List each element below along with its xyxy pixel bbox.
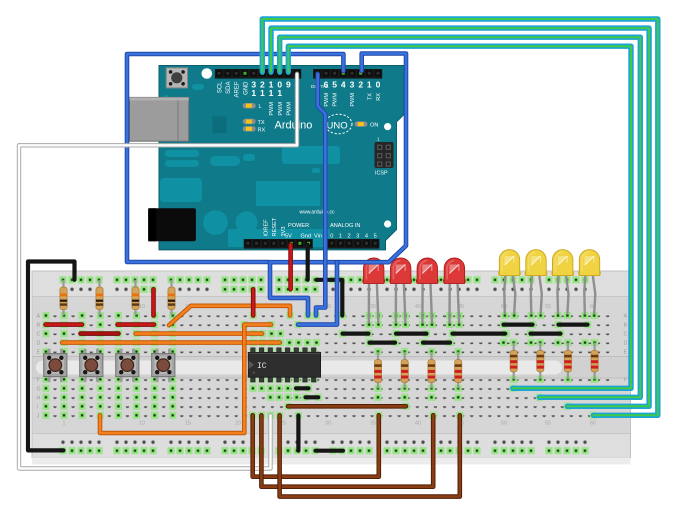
svg-text:3: 3 — [350, 80, 355, 90]
svg-text:D: D — [624, 341, 628, 347]
svg-text:3: 3 — [356, 234, 359, 240]
resistor R10 220 — [537, 343, 544, 380]
svg-text:IOREF: IOREF — [263, 219, 269, 237]
wire black row-D jumper 2 — [423, 341, 450, 345]
wire brown loop 2 — [261, 415, 433, 486]
wire black row-C jumper 1 — [343, 332, 369, 336]
power jack — [148, 208, 196, 241]
LED D8 yellow — [578, 250, 601, 314]
resistor R12 220 — [591, 343, 598, 380]
svg-text:A: A — [624, 314, 628, 320]
svg-text:35: 35 — [370, 304, 376, 310]
svg-text:PWM: PWM — [324, 93, 330, 107]
svg-text:RX: RX — [258, 127, 266, 133]
wire orange loop to row J — [100, 325, 271, 433]
svg-text:H: H — [37, 395, 41, 401]
wire black row J to bottom rail — [296, 415, 300, 450]
svg-text:AREF: AREF — [235, 81, 241, 97]
wire blue to row B — [298, 262, 337, 324]
wire red rail to row A (col 23) — [251, 289, 256, 315]
svg-text:40: 40 — [415, 421, 421, 427]
svg-text:10: 10 — [139, 421, 145, 427]
svg-text:1: 1 — [339, 234, 342, 240]
svg-text:C: C — [624, 332, 628, 338]
wire green pin12 to row J col60 — [262, 19, 658, 415]
wire white pin8 big loop to row J — [19, 74, 297, 469]
svg-text:Arduino: Arduino — [275, 120, 313, 132]
svg-text:www.arduino.cc: www.arduino.cc — [299, 210, 335, 216]
reset button — [166, 68, 187, 88]
resistor R2 10k — [96, 280, 103, 316]
wire blue pin4 loop (left rectangle) — [127, 54, 343, 262]
wire red row-B jumper 2 — [118, 322, 155, 327]
wire red rail to row A (col 12) — [151, 289, 156, 315]
wire black row-C jumper 2 — [396, 332, 427, 336]
svg-text:1: 1 — [269, 88, 274, 98]
analog header — [328, 239, 380, 249]
wire orange row-A jumper — [169, 306, 290, 325]
svg-text:D: D — [37, 341, 41, 347]
resistor R1 10k — [60, 280, 67, 316]
svg-text:20: 20 — [235, 421, 241, 427]
resistor R6 220 — [401, 352, 408, 389]
pushbutton S1 — [44, 349, 67, 382]
svg-text:4: 4 — [341, 80, 346, 90]
wire black rail-to-rail left loop — [28, 262, 75, 451]
svg-text:UNO: UNO — [327, 121, 348, 132]
LED D5 yellow — [498, 250, 521, 314]
svg-text:60: 60 — [590, 421, 596, 427]
svg-text:PWM: PWM — [333, 93, 339, 107]
power rail holes — [58, 284, 593, 294]
power header — [244, 239, 313, 249]
wire green pin9 to row G col51 — [288, 46, 631, 388]
USB connector — [130, 97, 189, 141]
wire black row-G jumper — [296, 386, 309, 390]
svg-text:15: 15 — [185, 421, 191, 427]
wire black row-H jumper — [306, 395, 319, 399]
main grid holes rows A-E — [41, 311, 613, 356]
L TX RX ON leds — [243, 103, 256, 108]
top-left header — [215, 69, 301, 79]
wire black bottom rail jumper — [316, 449, 344, 453]
svg-text:G: G — [37, 386, 41, 392]
svg-text:40: 40 — [415, 304, 421, 310]
svg-text:55: 55 — [545, 304, 551, 310]
pushbutton S2 — [80, 349, 103, 382]
svg-text:I: I — [37, 404, 39, 410]
svg-text:10: 10 — [139, 304, 145, 310]
svg-text:1: 1 — [251, 88, 256, 98]
LED D6 yellow — [525, 250, 548, 314]
svg-text:ON: ON — [370, 123, 378, 129]
wire red 5V to top rail — [288, 245, 293, 289]
svg-text:A: A — [37, 314, 41, 320]
breadboard body — [32, 271, 631, 458]
svg-text:35: 35 — [370, 421, 376, 427]
svg-text:PWM: PWM — [287, 102, 293, 116]
top-right header — [313, 69, 382, 79]
wire black rail to row A — [317, 280, 343, 316]
LED D1 red — [362, 258, 385, 323]
svg-text:E: E — [37, 350, 41, 356]
svg-text:5V: 5V — [285, 234, 292, 240]
main grid holes rows F-J — [41, 375, 613, 420]
svg-text:2: 2 — [348, 234, 351, 240]
wire red row-B jumper 1 — [46, 322, 83, 327]
svg-text:9: 9 — [286, 80, 291, 90]
resistor R7 220 — [428, 352, 435, 389]
svg-text:J: J — [37, 413, 40, 419]
svg-text:1: 1 — [277, 88, 282, 98]
svg-text:L: L — [259, 104, 262, 110]
wire black row-D jumper 1 — [370, 341, 396, 345]
svg-text:50: 50 — [501, 421, 507, 427]
wire brown loop 3 — [280, 415, 460, 496]
svg-text:0: 0 — [376, 80, 381, 90]
svg-text:1: 1 — [63, 421, 66, 427]
svg-text:2: 2 — [358, 80, 363, 90]
svg-text:GND: GND — [243, 81, 249, 95]
svg-text:Vin: Vin — [314, 234, 322, 240]
wire blue pin7 to row A — [316, 74, 325, 316]
svg-text:55: 55 — [545, 421, 551, 427]
resistor R3 10k — [132, 280, 139, 316]
resistor R4 10k — [168, 280, 175, 316]
svg-text:C: C — [37, 332, 41, 338]
svg-text:B: B — [624, 323, 628, 329]
svg-text:RESET: RESET — [272, 217, 278, 236]
svg-text:B: B — [37, 323, 41, 329]
svg-text:SDA: SDA — [226, 82, 232, 94]
LED D2 red — [389, 258, 412, 323]
wire black row-B jumper (yellow side) 2 — [559, 323, 588, 327]
wire black Gnd to top rail — [306, 245, 310, 280]
pushbutton S3 — [116, 349, 139, 382]
pushbutton S4 — [152, 349, 175, 382]
svg-text:Gnd: Gnd — [301, 234, 312, 240]
svg-text:POWER: POWER — [288, 223, 309, 229]
wire orange row-D — [62, 340, 280, 345]
mounting holes — [202, 68, 213, 79]
LED D4 red — [443, 258, 466, 323]
ICSP header — [375, 142, 394, 168]
wire black row-B jumper (yellow side) 1 — [504, 323, 533, 327]
connected holes (green) — [42, 312, 49, 319]
svg-text:1: 1 — [260, 88, 265, 98]
centre channel — [33, 357, 631, 379]
svg-text:IC: IC — [257, 362, 267, 371]
svg-text:5: 5 — [374, 234, 377, 240]
svg-text:30: 30 — [325, 421, 331, 427]
svg-text:0: 0 — [330, 234, 333, 240]
svg-text:PWM: PWM — [278, 102, 284, 116]
svg-text:1: 1 — [367, 80, 372, 90]
svg-text:5: 5 — [332, 80, 337, 90]
svg-text:RX: RX — [376, 93, 382, 101]
wire green pin10 to row H col54 — [280, 37, 641, 397]
svg-text:ICSP: ICSP — [375, 171, 388, 177]
svg-text:E: E — [624, 350, 628, 356]
wire brown row-I jumper — [288, 404, 406, 409]
wire black row-C jumper 3 — [453, 332, 506, 336]
resistor R5 220 — [374, 352, 381, 389]
svg-text:ANALOG IN: ANALOG IN — [330, 223, 360, 229]
resistor R9 220 — [510, 343, 517, 380]
wire green pin11 to row I col57 — [271, 28, 649, 406]
wire brown loop 1 — [253, 415, 379, 476]
svg-text:PWM: PWM — [350, 93, 356, 107]
pin labels — [217, 80, 382, 240]
Arduino UNO board U0 — [130, 66, 405, 250]
LED D7 yellow — [551, 250, 574, 314]
resistor R11 220 — [564, 343, 571, 380]
wire blue pin2 to row A — [270, 54, 406, 316]
svg-text:TX: TX — [258, 120, 265, 126]
wire orange row-C — [136, 331, 262, 336]
wire red row-C jumper — [81, 331, 119, 336]
resistor R8 220 — [455, 352, 462, 389]
svg-text:PWM: PWM — [269, 102, 275, 116]
LED D3 red — [416, 258, 439, 323]
svg-text:TX: TX — [367, 93, 373, 100]
IC U1 — [248, 348, 320, 382]
wire black row-C jumper (yellow side) — [531, 332, 561, 336]
svg-text:4: 4 — [365, 234, 368, 240]
svg-text:SCL: SCL — [217, 81, 223, 93]
